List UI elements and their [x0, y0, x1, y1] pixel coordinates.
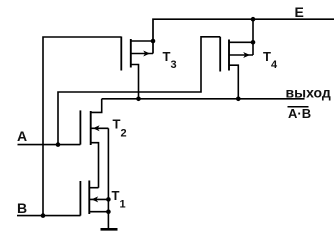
node: junction dot T1 source	[106, 209, 111, 214]
T2 gate bar	[79, 110, 81, 144]
svg-text:А·В: А·В	[288, 106, 311, 121]
power rail E	[153, 19, 334, 53]
wire: substrate bus down to ground	[107, 128, 109, 229]
T4 vertical to rail	[252, 19, 254, 55]
T4 substrate lead	[229, 54, 253, 56]
T4 channel bar	[228, 40, 230, 71]
svg-text:T1: T1	[112, 188, 126, 211]
node: junction dot T3 source/substrate	[151, 39, 156, 44]
T3 drain stub down to output	[131, 65, 139, 99]
T4 substrate arrow (points right)	[243, 52, 250, 58]
T2 substrate lead	[91, 127, 109, 129]
T1 drain stub from T2	[89, 187, 98, 189]
node: junction dot output/T3 drain	[136, 97, 141, 102]
svg-text:T2: T2	[113, 116, 127, 139]
svg-text:выход: выход	[286, 85, 331, 101]
svg-text:T4: T4	[263, 49, 278, 71]
T3 source stub to rail	[131, 40, 153, 42]
T2 substrate arrow (points left to channel)	[93, 125, 100, 131]
node: junction dot A wire / T4 gate branch	[56, 142, 61, 147]
wire: input B vertical riser to T3 gate	[43, 37, 121, 216]
node: junction dot output/T4 drain	[236, 97, 241, 102]
transistor T4 (p-channel MOS)	[220, 19, 253, 99]
T2 source stub down to T1 drain	[91, 143, 99, 188]
T3 channel bar	[130, 39, 132, 68]
T4 gate bar	[219, 37, 221, 72]
wire: input A horizontal	[18, 144, 81, 146]
wire: input B horizontal	[17, 215, 81, 217]
node: junction dot T4 source/substrate	[251, 40, 256, 45]
wire: A branch up and over to T4 gate	[58, 37, 220, 145]
node: junction dot B wire / riser	[41, 213, 46, 218]
T1 gate bar	[79, 181, 81, 216]
T3 gate bar	[120, 37, 122, 71]
svg-text:E: E	[295, 4, 304, 20]
svg-text:T3: T3	[163, 49, 177, 71]
transistor T3 (p-channel MOS)	[121, 37, 153, 99]
T1 channel bar	[88, 181, 90, 215]
transistor T1 (n-channel MOS)	[80, 181, 108, 216]
T3 substrate arrow (points right)	[143, 51, 150, 57]
T3 substrate lead	[131, 53, 153, 55]
T1 substrate arrow (points left to channel)	[91, 196, 98, 202]
wire: output line	[102, 98, 305, 100]
transistor T2 (n-channel MOS)	[80, 99, 108, 188]
T2 drain riser to output	[91, 99, 102, 113]
T2 channel bar	[90, 111, 92, 145]
svg-text:В: В	[17, 200, 27, 216]
ground	[101, 228, 118, 231]
overline of A·B	[288, 106, 309, 108]
T4 source stub to rail	[229, 41, 253, 43]
T1 substrate lead	[89, 198, 108, 200]
node: junction dot T1 substrate	[106, 197, 111, 202]
node: junction dot rail/T4 source	[251, 17, 256, 22]
T4 drain stub down to output	[229, 65, 238, 99]
svg-text:А: А	[17, 128, 27, 144]
T1 source stub	[89, 211, 108, 213]
